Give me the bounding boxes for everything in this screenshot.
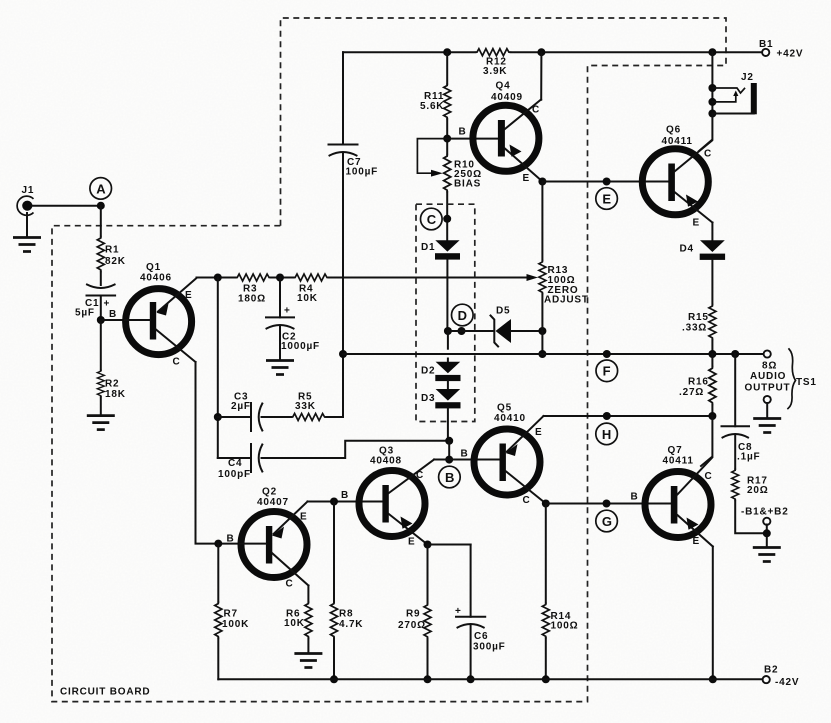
svg-text:A: A [96,181,106,196]
svg-text:270Ω: 270Ω [398,620,426,631]
svg-text:40407: 40407 [257,497,289,508]
svg-text:C: C [286,579,294,590]
svg-text:B: B [445,470,454,485]
node Q1E/C3 junction [214,274,222,282]
node B circle [439,466,461,488]
wire J2 to Q6 collector [699,114,712,152]
svg-text:+: + [455,606,462,617]
svg-text:40411: 40411 [663,456,694,467]
svg-text:-42V: -42V [775,677,799,688]
jack J2 [708,72,756,118]
capacitor C8 [722,426,761,462]
svg-text:E: E [602,191,611,206]
label 8 ohm audio output [745,349,817,409]
svg-text:D5: D5 [496,306,510,317]
svg-text:300µF: 300µF [473,642,506,653]
svg-text:R1: R1 [105,245,119,256]
wire R9 [427,545,429,604]
resistor R15 [682,305,716,340]
svg-text:TS1: TS1 [796,377,817,388]
wire R2 to ground [100,397,102,414]
resistor R6 [284,602,312,638]
svg-text:18K: 18K [105,389,126,400]
svg-text:40411: 40411 [662,136,693,147]
resistor R8 [331,602,364,638]
wire Q6 emitter to D4 [711,223,713,241]
wire C3 junction to C3 [218,416,251,418]
wire R14 to bottom rail [545,638,547,679]
transistor Q6 [642,125,712,229]
svg-text:+: + [104,299,111,310]
node C4-wire junction [445,437,453,445]
wire R10 to node C [446,192,448,241]
wire Q2 collector to R6 [307,586,309,603]
wire R7 [217,544,219,602]
svg-text:R8: R8 [339,609,353,620]
resistor R11 [420,84,451,119]
circuit board dashed outline [52,18,726,702]
wire R15 to F rail [711,340,713,355]
wire B node to Q5 base [449,459,499,461]
svg-text:D: D [458,308,467,323]
wire Q1 emitter rail to R3 (y=277.5) [197,277,236,279]
svg-text:40408: 40408 [370,456,402,467]
wire Q1 collector down to Q2 base [196,362,240,544]
node rail/R11 junction [443,48,451,56]
wire R9 to bottom rail [427,639,429,680]
svg-text:+: + [284,306,291,317]
wire rail corner down to C7 [342,52,344,144]
svg-text:C6: C6 [474,631,488,642]
capacitor C3 [231,392,262,432]
node Q7E/rail junction [709,675,717,683]
wire rail down to J2 contacts [711,52,713,113]
svg-text:C: C [532,105,540,116]
diode D1 [421,240,460,259]
svg-text:B: B [631,492,639,503]
arrow into R10 [431,170,443,177]
svg-text:100µF: 100µF [346,167,379,178]
wire H rail down to Q7 collector [701,416,712,466]
svg-text:B: B [341,490,349,501]
capacitor C6 [455,606,506,653]
svg-text:33K: 33K [295,401,316,412]
svg-text:R16: R16 [688,377,709,388]
resistor R4 [294,274,329,304]
svg-text:C4: C4 [228,458,242,469]
node R3/R4/C2 junction [276,274,284,282]
resistor R16 [679,367,716,405]
terminal B2 [763,665,800,689]
wire R1 to C1 [100,272,102,286]
wire Q4E down to R13 [541,182,543,261]
svg-text:E: E [523,173,530,184]
svg-text:D3: D3 [421,393,435,404]
capacitor C7 [329,145,379,178]
svg-text:OUTPUT: OUTPUT [745,383,791,394]
transistor Q3 [359,446,434,548]
diode D2 [421,362,461,381]
node G test point [596,500,618,532]
+42V rail [343,51,476,53]
node E test point [596,178,618,210]
resistor R7 [215,602,249,638]
node R7/Q2 base junction [214,540,222,548]
node C3 junction [214,413,222,421]
wire D1 to node D [446,260,448,331]
node R9/rail junction [424,675,432,683]
svg-text:E: E [185,290,192,301]
node R16/H-rail junction [708,412,716,420]
wire R7 to bottom rail [217,638,219,679]
wire R16 to H rail [711,404,713,416]
wire C3 to R5 [262,416,292,418]
svg-text:10K: 10K [297,293,318,304]
resistor R3 [236,274,271,305]
wire R14 [545,504,547,604]
node R15/F-rail junction [708,350,716,358]
capacitor C4 [218,444,262,480]
svg-text:.27Ω: .27Ω [679,387,704,398]
wire base node down to R2 [100,320,102,370]
wire R17 to battery common [735,501,767,534]
svg-text:E: E [693,218,700,229]
svg-text:F: F [603,364,611,379]
wire rail to R11 [446,52,448,84]
ground below R2 [87,416,115,430]
svg-text:10K: 10K [284,618,305,629]
potentiometer R10 [444,155,482,192]
transistor Q4 [473,81,543,185]
terminal battery common [753,518,781,562]
wire Q7 emitter to bottom rail [712,547,714,680]
transistor Q5 [474,403,546,507]
transistor Q2 [240,487,308,590]
svg-text:100pF: 100pF [218,469,251,480]
svg-text:R9: R9 [406,609,420,620]
connector J1 [17,185,34,215]
svg-text:B1: B1 [759,39,773,50]
resistor R9 [398,604,431,639]
capacitor C1 [75,285,115,319]
svg-text:40406: 40406 [140,273,172,284]
svg-text:B2: B2 [764,665,778,676]
node C7/F-rail junction [339,350,347,358]
wire C6 top [470,545,472,617]
node C6/rail junction [467,675,475,683]
svg-text:D2: D2 [421,366,435,377]
wire base node to Q1 [101,319,150,321]
svg-text:BIAS: BIAS [454,179,481,190]
wire base node to Q4 [447,138,498,140]
node C [421,208,452,230]
svg-text:Q6: Q6 [666,125,681,136]
resistor R2 [97,370,125,400]
node Q3E/R9 junction [424,541,432,549]
svg-text:Q2: Q2 [262,487,277,498]
svg-text:-B1&+B2: -B1&+B2 [741,507,789,518]
wire R4 to R13 arrow (crosses C7 and diode verticals) [329,277,527,279]
wire D3 to C4 junction [447,408,449,441]
svg-text:H: H [602,427,611,442]
wire Q3 collector to B node [434,459,449,461]
wire Q1E vertical down to C3 [217,278,219,459]
svg-text:.33Ω: .33Ω [682,323,707,334]
resistor R1 [97,237,125,272]
wire J1 to node A [32,205,101,207]
svg-text:B: B [227,534,235,545]
resistor R5 [291,392,326,421]
ground below C2 [266,361,294,375]
node B junction [445,456,453,464]
ground below R6 [294,654,322,668]
svg-text:R15: R15 [688,312,709,323]
node R13/F-rail junction [538,350,546,358]
terminal TS1 output hot [764,350,771,357]
svg-text:100Ω: 100Ω [551,621,579,632]
node D circle [452,304,474,326]
wire Q4 collector to rail [540,52,542,99]
svg-text:B: B [459,127,467,138]
svg-text:20Ω: 20Ω [747,485,769,496]
wire C2 from junction [279,278,281,318]
svg-text:J1: J1 [22,185,35,196]
terminal TS1 output ground [753,396,781,433]
ground below J1 [13,213,41,252]
wire A down to R1 [100,206,102,237]
node rail/Q4C junction [537,48,545,56]
svg-text:8Ω: 8Ω [762,361,777,372]
svg-text:Q5: Q5 [497,403,512,414]
svg-text:D1: D1 [421,242,435,253]
svg-text:CIRCUIT BOARD: CIRCUIT BOARD [60,687,150,698]
wire C1 to base node [100,296,102,321]
wire R3 to R4 [271,277,294,279]
arrow into R13 [527,274,539,281]
node F test point [596,350,618,382]
diode D3 [421,389,461,408]
svg-text:E: E [300,512,307,523]
svg-text:ADJUST: ADJUST [544,295,589,306]
svg-text:C: C [173,357,181,368]
node D5/R13 junction [538,327,546,335]
wire R8 to bottom rail [333,638,335,679]
resistor R12 [476,49,511,77]
wire E rail to Q6 base [542,181,668,183]
resistor R14 [542,603,578,638]
wire F rail to R16 [711,354,713,367]
terminal B1 [759,39,803,60]
svg-text:E: E [408,537,415,548]
wire C4 right to diode column [262,441,450,458]
svg-text:C: C [427,212,437,227]
wire D2 to D3 [447,381,449,389]
wire C4 left [218,457,251,459]
node Q5C/R14 junction [542,500,550,508]
svg-text:Q7: Q7 [668,445,683,456]
svg-text:E: E [535,427,542,438]
svg-text:R7: R7 [224,609,238,620]
svg-text:.1µF: .1µF [737,452,760,463]
node F-rail/C8 junction [731,350,739,358]
wire D node to D5 [448,330,494,332]
node A [90,178,112,210]
wire Q3 emitter node to C6 [428,544,471,546]
svg-text:J2: J2 [741,72,754,83]
svg-text:B: B [109,309,117,320]
node H test point [596,412,618,445]
wire C8 from F rail [734,354,736,426]
svg-text:180Ω: 180Ω [238,294,266,305]
svg-text:C: C [704,149,712,160]
svg-text:2µF: 2µF [231,401,251,412]
svg-text:G: G [602,514,612,529]
svg-text:40409: 40409 [491,92,523,103]
node D dots [444,327,452,335]
wire C8 to R17 [734,436,736,470]
svg-text:D4: D4 [680,244,694,255]
node R8/Q3 base junction [330,498,338,506]
wire R11 to Q4 base node [446,119,448,155]
bottom rail [218,678,762,680]
svg-text:40410: 40410 [494,413,526,424]
dashed box around D1 D2 D3 [416,204,475,421]
svg-text:C: C [523,495,531,506]
transistor Q7 [645,445,713,547]
wire C7 down to F rail [342,153,344,354]
wire R13 to D5 node [541,294,543,354]
wire D4 to R15 [711,260,713,305]
svg-text:82K: 82K [105,256,126,267]
wire Q2 emitter to Q3 base [308,501,383,503]
node R14/rail junction [542,675,550,683]
svg-text:100K: 100K [222,619,249,630]
svg-text:5.6K: 5.6K [420,101,444,112]
diode D4 [680,240,726,260]
H rail (Q5 emitter to R16) [544,415,713,417]
wire R6 to ground [307,638,309,652]
feedback wire to R10 wiper [417,139,447,174]
wire R8 from Q3 base node [333,502,335,603]
svg-text:Q1: Q1 [146,262,161,273]
node junction at Q1 base [97,316,105,324]
svg-text:E: E [693,536,700,547]
potentiometer R13 [539,261,589,306]
svg-text:3.9K: 3.9K [483,66,507,77]
F rail [343,353,764,355]
svg-text:4.7K: 4.7K [339,619,363,630]
G wire (Q5 collector to Q7 base) [546,503,671,505]
svg-text:R2: R2 [105,379,119,390]
svg-text:Q4: Q4 [496,81,511,92]
svg-text:C: C [705,471,713,482]
node rail/J2 junction [708,48,716,56]
svg-text:C: C [416,470,424,481]
svg-text:+42V: +42V [777,49,804,60]
wire R5 to C7 vertical [326,355,343,417]
node Q4 base junction [443,135,451,143]
wire C2 to ground [279,326,281,359]
node R8/rail junction [330,675,338,683]
node Q4E/R13 junction [538,178,546,186]
svg-text:B: B [461,449,469,460]
transistor Q1 [125,262,197,368]
resistor R17 [732,469,769,501]
wire down to B node [448,441,450,460]
capacitor C2 [266,306,320,353]
diode D5 (zener) [491,306,512,347]
svg-text:5µF: 5µF [75,308,95,319]
wire D5 to R13 column [511,330,542,332]
svg-text:1000µF: 1000µF [281,341,320,352]
svg-text:AUDIO: AUDIO [750,371,786,382]
wire D node down to D2 (gap at F rail) [447,331,449,349]
wire C6 to bottom rail [470,626,472,680]
